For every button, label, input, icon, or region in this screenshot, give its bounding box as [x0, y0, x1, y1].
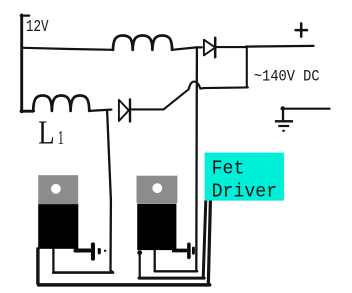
node dot Q2 gate	[137, 250, 142, 255]
inductor L1 phase B	[33, 96, 89, 111]
wire 12V bus to L1a	[23, 48, 113, 50]
node dot (Q1)	[104, 250, 106, 252]
transistor Q2 source lead	[137, 243, 195, 260]
diode D2 cathode bar	[129, 99, 131, 121]
capacitor plate long (Q1)	[91, 242, 95, 260]
wire top stub of bus	[21, 14, 29, 16]
transistor Q1 tab	[38, 175, 78, 204]
wire driver output B vertical	[208, 201, 210, 285]
wire Q1 drain pin	[52, 249, 54, 273]
wire D2 cathode right	[131, 108, 163, 110]
ground symbol bars	[275, 106, 293, 132]
wire drain phase B (junction down)	[107, 110, 113, 272]
capacitor plate long (Q2)	[187, 243, 191, 260]
diode D1 cathode bar	[214, 38, 217, 57]
wire 12V bus to L1b	[33, 110, 34, 112]
wire bottom stub of bus	[21, 110, 33, 113]
wire drain loop horizontal to Q1	[53, 271, 113, 274]
transistor Q2 body	[137, 204, 176, 251]
wire hop over drain line	[189, 82, 204, 90]
transistor Q2 tab	[137, 176, 178, 203]
wire ground return bottom outer	[39, 283, 210, 287]
svg-text:L: L	[38, 114, 54, 152]
wire ground horizontal	[282, 108, 330, 110]
svg-text:~140V DC: ~140V DC	[254, 69, 320, 86]
transistor Q1 mounting hole	[51, 184, 61, 194]
wire Q2 drain pin	[154, 250, 156, 271]
fet driver box U1	[205, 153, 284, 201]
wire output node right vertical	[246, 46, 248, 87]
svg-text:Driver: Driver	[212, 180, 278, 203]
svg-text:Fet: Fet	[212, 157, 245, 180]
wire diagonal D2 to output node	[164, 89, 189, 109]
wire output to + terminal	[246, 45, 314, 48]
svg-text:1: 1	[58, 127, 64, 149]
capacitor plate short (Q1)	[98, 248, 101, 254]
diode D2	[119, 100, 129, 121]
inductor L1 phase A	[113, 36, 172, 50]
wire Q1 source outer vertical	[38, 249, 40, 285]
wire output node bottom horizontal	[204, 86, 248, 89]
wire driver output A vertical	[203, 201, 206, 278]
wire gate loop bottom	[139, 277, 204, 280]
diode D1	[204, 40, 215, 56]
capacitor plate short (Q2)	[192, 247, 195, 255]
wire D1 cathode to output node	[216, 46, 246, 48]
transistor Q2 mounting hole	[152, 183, 162, 193]
node dot at ground wire	[281, 106, 285, 110]
wire Q2 drain loop horizontal	[155, 270, 198, 272]
wire L1a to diode D1 anode	[172, 47, 202, 49]
ground stem	[282, 108, 284, 121]
plus terminal	[296, 23, 307, 36]
wire drain phase A (junction down to Q2)	[195, 47, 198, 271]
svg-text:12V: 12V	[26, 19, 49, 37]
wire Q2 gate pin	[139, 253, 141, 279]
12V supply bus	[20, 15, 23, 112]
transistor Q1 source lead	[74, 242, 107, 260]
transistor Q1 body	[38, 204, 78, 249]
wire L1b to diode D2 anode	[89, 110, 111, 111]
